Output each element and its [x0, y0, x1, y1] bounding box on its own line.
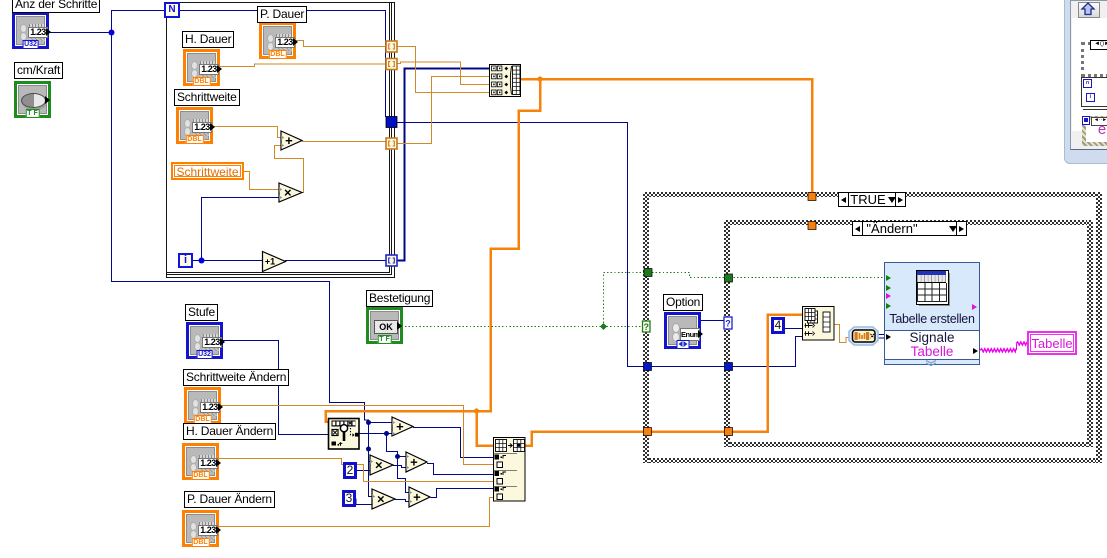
svg-text:+1: +1	[265, 257, 275, 267]
svg-text:×: ×	[284, 185, 292, 200]
svg-text:+: +	[413, 490, 421, 505]
svg-text:?: ?	[644, 322, 650, 332]
svg-text:+: +	[285, 133, 293, 148]
svg-text:?: ?	[725, 319, 731, 329]
svg-text:+: +	[396, 419, 404, 434]
svg-text:×: ×	[377, 492, 385, 507]
svg-text:+: +	[410, 455, 418, 470]
svg-text:×: ×	[375, 458, 383, 473]
